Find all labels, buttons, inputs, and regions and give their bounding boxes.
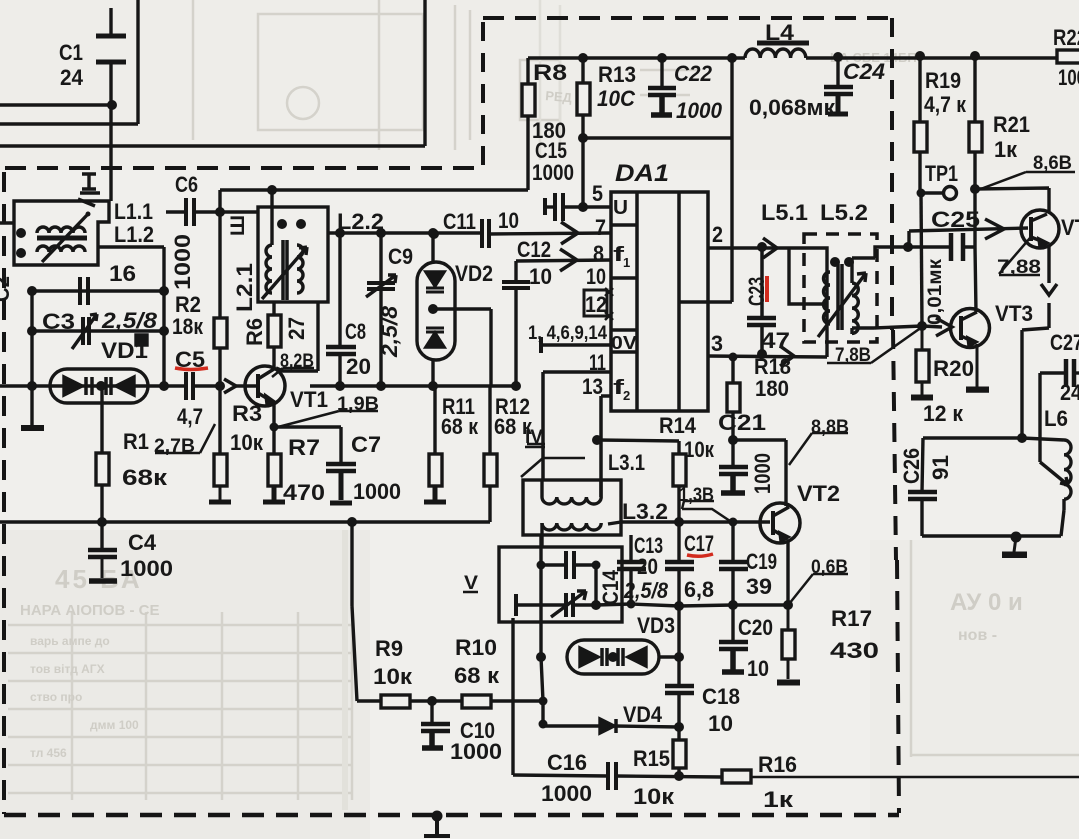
svg-text:R13: R13: [598, 62, 636, 87]
svg-text:91: 91: [928, 455, 953, 480]
svg-text:10к: 10к: [373, 664, 413, 689]
svg-text:VT3: VT3: [995, 301, 1033, 326]
svg-text:L1.2: L1.2: [114, 222, 154, 247]
svg-text:C9: C9: [388, 244, 413, 269]
svg-text:47: 47: [761, 328, 790, 353]
svg-text:C11: C11: [443, 209, 476, 234]
svg-text:10к: 10к: [633, 784, 675, 809]
svg-text:R20: R20: [933, 356, 974, 381]
svg-text:1000: 1000: [170, 234, 195, 290]
svg-text:1000: 1000: [532, 160, 574, 185]
svg-text:дмм 100: дмм 100: [90, 718, 139, 732]
svg-text:0,6В: 0,6В: [811, 556, 848, 578]
svg-text:1000: 1000: [676, 98, 722, 123]
svg-text:Ш: Ш: [228, 215, 249, 236]
svg-text:8,6В: 8,6В: [1033, 152, 1072, 174]
svg-text:68к: 68к: [122, 465, 168, 490]
svg-text:VT1: VT1: [290, 387, 328, 412]
svg-text:13: 13: [582, 374, 603, 399]
svg-text:R10: R10: [455, 635, 497, 660]
svg-text:12: 12: [585, 292, 607, 317]
svg-text:100: 100: [1058, 65, 1079, 90]
svg-text:L5.2: L5.2: [820, 200, 868, 225]
svg-text:L6: L6: [1044, 406, 1068, 431]
svg-text:27: 27: [284, 317, 309, 340]
svg-text:L2.1: L2.1: [232, 263, 257, 312]
svg-text:R19: R19: [925, 68, 961, 93]
svg-text:С26: С26: [899, 448, 924, 484]
svg-text:варь ампе до: варь ампе до: [30, 634, 110, 648]
svg-text:IV: IV: [525, 426, 543, 448]
svg-text:2,7В: 2,7В: [154, 435, 195, 457]
svg-text:20: 20: [346, 354, 371, 379]
svg-text:C6: C6: [175, 172, 198, 197]
svg-text:C24: C24: [843, 59, 885, 84]
svg-text:C22: C22: [674, 61, 712, 86]
svg-text:430: 430: [830, 638, 879, 663]
svg-text:1000: 1000: [353, 479, 401, 504]
svg-text:L5.1: L5.1: [761, 200, 808, 225]
svg-text:2,5/8: 2,5/8: [101, 308, 158, 333]
svg-text:R15: R15: [633, 746, 670, 771]
svg-text:C2: C2: [0, 276, 14, 302]
svg-text:R8: R8: [533, 60, 567, 85]
svg-text:11: 11: [589, 350, 606, 375]
svg-text:1000: 1000: [450, 739, 502, 764]
svg-text:L3.1: L3.1: [608, 450, 645, 475]
svg-text:C1: C1: [59, 40, 83, 65]
svg-text:1, 4,6,9,14: 1, 4,6,9,14: [528, 322, 607, 344]
svg-text:68 к: 68 к: [441, 414, 479, 439]
svg-text:8: 8: [593, 241, 604, 266]
svg-text:R3: R3: [232, 401, 262, 426]
svg-text:V: V: [464, 572, 478, 594]
svg-text:10: 10: [708, 711, 733, 736]
svg-text:R21: R21: [993, 112, 1030, 137]
svg-text:C16: C16: [547, 750, 587, 775]
svg-text:тл 456: тл 456: [30, 746, 67, 760]
svg-text:VD4: VD4: [623, 702, 662, 727]
svg-text:нов -: нов -: [958, 627, 997, 644]
svg-text:R22: R22: [1053, 25, 1079, 50]
svg-text:C4: C4: [128, 530, 156, 555]
svg-text:7,8В: 7,8В: [835, 344, 871, 366]
svg-text:2: 2: [712, 222, 723, 247]
svg-text:С14: С14: [598, 570, 623, 605]
svg-text:VD1: VD1: [101, 338, 148, 363]
svg-text:C7: C7: [351, 432, 381, 457]
svg-text:8,8В: 8,8В: [811, 416, 849, 438]
svg-text:10к: 10к: [684, 437, 715, 462]
svg-text:L3.2: L3.2: [622, 499, 668, 524]
svg-text:1к: 1к: [994, 137, 1018, 162]
svg-text:68 к: 68 к: [454, 663, 500, 688]
svg-text:C21: C21: [718, 410, 766, 435]
svg-text:1000: 1000: [750, 453, 775, 494]
svg-text:5: 5: [592, 181, 603, 206]
svg-text:3: 3: [711, 331, 723, 356]
svg-text:24: 24: [1060, 380, 1079, 405]
svg-text:2,5/8: 2,5/8: [623, 578, 668, 603]
svg-text:18к: 18к: [172, 314, 204, 339]
svg-text:4,7: 4,7: [177, 404, 203, 429]
svg-text:R16: R16: [758, 752, 797, 777]
svg-text:VT2: VT2: [797, 481, 840, 506]
svg-text:1000: 1000: [541, 781, 592, 806]
svg-text:24: 24: [60, 65, 83, 90]
svg-text:7,88: 7,88: [997, 256, 1041, 278]
svg-text:С23: С23: [744, 277, 769, 306]
svg-text:C17: C17: [684, 531, 714, 556]
svg-text:C25: C25: [931, 207, 980, 232]
svg-text:10: 10: [498, 208, 519, 233]
svg-text:10: 10: [747, 656, 769, 681]
svg-text:12 к: 12 к: [923, 401, 964, 426]
svg-text:10: 10: [529, 264, 552, 289]
svg-text:1к: 1к: [763, 787, 794, 812]
svg-text:R14: R14: [659, 413, 696, 438]
svg-text:C27: C27: [1050, 330, 1079, 355]
svg-text:2: 2: [623, 388, 630, 403]
svg-text:DA1: DA1: [615, 160, 669, 187]
svg-text:C12: C12: [517, 237, 551, 262]
svg-text:10: 10: [586, 264, 606, 289]
svg-text:16: 16: [109, 261, 136, 286]
svg-text:C3: C3: [42, 309, 75, 334]
svg-text:R7: R7: [288, 435, 320, 460]
svg-text:R17: R17: [831, 606, 872, 631]
svg-text:180: 180: [755, 376, 789, 401]
svg-text:8,2В: 8,2В: [280, 350, 314, 372]
svg-text:7: 7: [595, 215, 606, 240]
svg-text:4,7 к: 4,7 к: [924, 92, 967, 117]
svg-text:R9: R9: [375, 636, 403, 661]
svg-text:1,3В: 1,3В: [679, 484, 714, 506]
svg-text:0,01мк: 0,01мк: [925, 258, 946, 325]
svg-text:R6: R6: [242, 318, 267, 346]
svg-text:ТР1: ТР1: [925, 161, 958, 186]
svg-text:РЕД: РЕД: [545, 88, 574, 105]
svg-text:39: 39: [746, 574, 772, 599]
svg-text:470: 470: [283, 480, 325, 505]
svg-text:0,068мк: 0,068мк: [749, 95, 836, 120]
svg-text:НАРА АІОПОВ - СЕ: НАРА АІОПОВ - СЕ: [20, 602, 159, 619]
svg-text:C5: C5: [175, 347, 205, 372]
svg-text:L2.2: L2.2: [337, 209, 384, 234]
svg-text:L1.1: L1.1: [114, 199, 153, 224]
svg-text:R1: R1: [123, 429, 149, 454]
svg-text:АУ 0 и: АУ 0 и: [950, 589, 1023, 616]
svg-text:C20: C20: [738, 615, 773, 640]
svg-text:VD2: VD2: [455, 261, 493, 286]
svg-text:L4: L4: [765, 20, 795, 45]
svg-text:2,5/8: 2,5/8: [377, 306, 402, 359]
svg-text:0V: 0V: [611, 333, 637, 353]
svg-text:VT: VT: [1061, 215, 1079, 240]
svg-text:тов вітд АГХ: тов вітд АГХ: [30, 662, 105, 676]
svg-text:10к: 10к: [230, 430, 264, 455]
svg-text:C18: C18: [702, 684, 740, 709]
svg-text:U: U: [613, 197, 628, 219]
svg-text:ство про: ство про: [30, 690, 82, 704]
svg-text:1000: 1000: [120, 556, 173, 581]
svg-text:VD3: VD3: [637, 613, 675, 638]
svg-text:1: 1: [623, 255, 630, 270]
svg-text:C19: C19: [746, 549, 777, 574]
svg-text:10С: 10С: [597, 86, 636, 111]
svg-text:6,8: 6,8: [684, 577, 714, 602]
svg-text:C8: C8: [345, 319, 366, 344]
svg-text:1,9В: 1,9В: [337, 393, 379, 415]
svg-text:20: 20: [637, 554, 658, 579]
